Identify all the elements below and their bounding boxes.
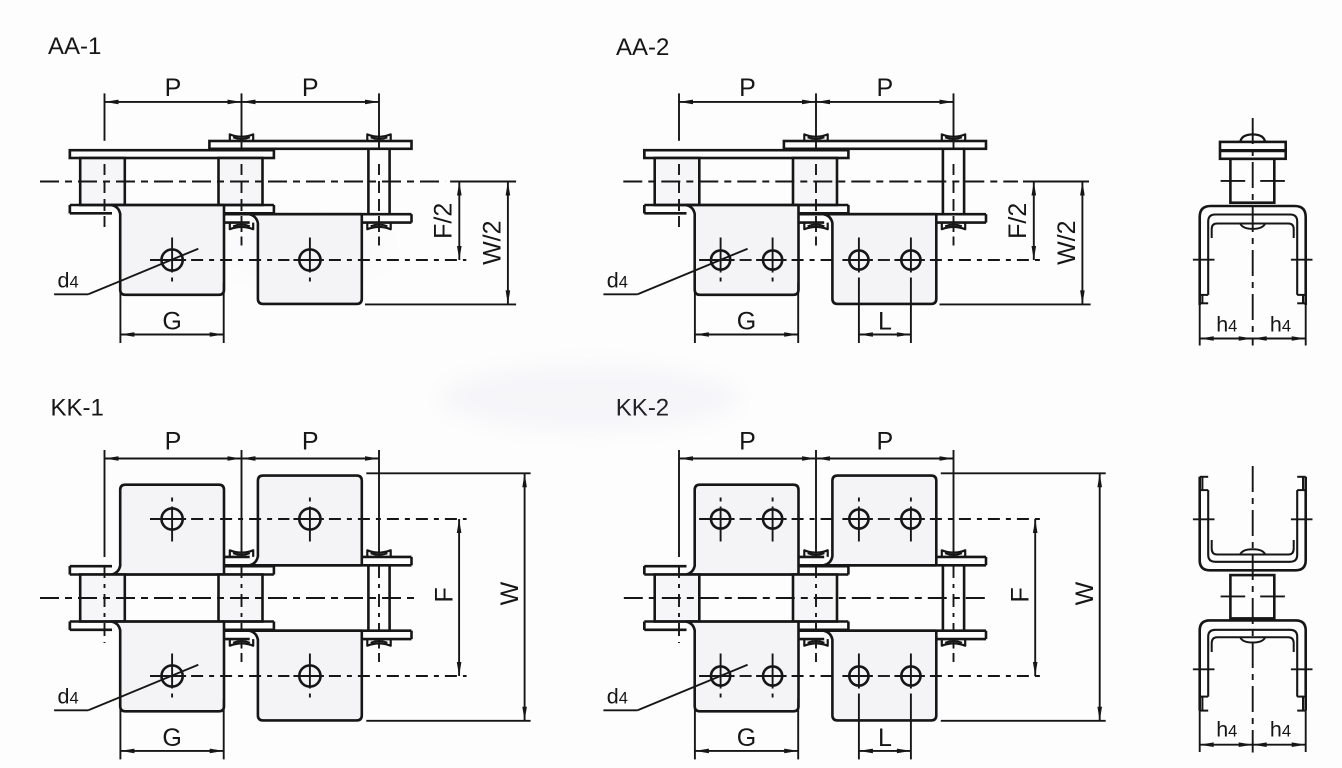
svg-text:G: G (737, 308, 756, 336)
KK-1 connecting pin (368, 565, 389, 630)
KK-1 cotter pin top 2 (230, 550, 253, 557)
svg-text:W/2: W/2 (1053, 220, 1081, 264)
KK h4 extension lines (1200, 711, 1306, 752)
AA-2 label G (737, 308, 756, 336)
AA-2 cotter pin top 3 (942, 134, 965, 141)
AA-1 link plate left ends (69, 150, 72, 213)
KK-2 attachment plate A1 (lower) (686, 622, 799, 712)
KK-1 roller link plate lower outer edge (70, 622, 274, 630)
KK-2 pin link plate lower inner edge (799, 629, 987, 632)
KK-2 pin extension lines (679, 450, 954, 662)
attachment section inner profile (1208, 215, 1297, 295)
AA-2 roller link plate upper (644, 150, 848, 158)
AA-1 attachment plate A2 (two-link, lower) (249, 214, 362, 304)
AA-2 dimension line G (695, 332, 798, 337)
KK-2 upper hole centerline (699, 518, 1041, 520)
KK-1 pin link plate upper outer edge (224, 557, 412, 565)
KK-2 W extension lines (941, 473, 1106, 721)
KK-1 label P left (165, 428, 182, 456)
AA-2 label d4 (607, 269, 628, 293)
AA-1 dimension line W/2 (506, 182, 511, 305)
KK-2 label P left (739, 428, 756, 456)
AA-1 pin extension lines (105, 93, 380, 245)
AA-1 attachment hole A2 (299, 238, 320, 282)
KK-2 attachment plate K2 (two-link, upper) (824, 476, 937, 566)
AA-1 roller link plate lower outer edge (70, 205, 274, 213)
attachment section outer profile (1200, 206, 1306, 305)
svg-text:P: P (165, 428, 182, 456)
svg-text:G: G (162, 308, 181, 336)
AA-2 attachment hole A1a (711, 238, 730, 282)
AA-1 label P left (165, 74, 182, 102)
AA-1 hole centerline (150, 259, 466, 261)
AA-2 dimension line F/2 (1032, 182, 1037, 261)
AA-1 label G (162, 308, 181, 336)
KK-1 pin link plate lower outer edge (224, 631, 412, 639)
AA-2 roller 1 (655, 158, 700, 205)
AA-1 roller link plate lower inner edge (70, 204, 274, 207)
KK-1 label P right (302, 428, 319, 456)
AA-2 pin link plate lower inner edge (799, 213, 987, 216)
KK-2 lower hole centerline (699, 675, 1041, 677)
AA-2 dimension line L (859, 332, 911, 337)
AA-1 dimension line F/2 (457, 182, 462, 261)
KK end view vertical centerline (1252, 466, 1254, 753)
end view cotter pin end (1237, 134, 1268, 142)
title AA-1 (48, 33, 101, 60)
KK-1 upper attachment hole K1 (162, 498, 183, 542)
attachment section second plate profile (1212, 224, 1294, 239)
svg-text:G: G (162, 724, 181, 752)
KK-1 cotter pin bottom 2 (230, 639, 253, 646)
KK-2 attachment plate K1 (upper) (686, 485, 799, 575)
KK-2 label d4 (607, 685, 628, 709)
KK-2 G extension lines (695, 699, 798, 759)
KK-1 dimension line P P (105, 456, 380, 461)
svg-text:F: F (1007, 587, 1035, 602)
svg-text:F/2: F/2 (1004, 203, 1032, 239)
KK-2 cotter pin bottom 2 (804, 639, 827, 646)
KK-2 cotter pin bottom 3 (942, 639, 965, 646)
KK-1 pin link plate lower inner edge (224, 629, 412, 632)
KK-2 dimension line L (859, 749, 911, 754)
KK-1 dimension line G (120, 749, 223, 754)
svg-text:W/2: W/2 (479, 220, 507, 264)
lower attachment section outer profile (1200, 620, 1306, 710)
KK-2 cotter pin top 3 (942, 550, 965, 557)
AA-2 label F/2 (1004, 203, 1032, 239)
KK-1 chain centerline (40, 597, 416, 599)
KK-1 label W (496, 581, 524, 605)
upper attachment leg caps (1200, 477, 1306, 490)
KK label h4 right (1270, 718, 1291, 742)
AA-2 connecting pin (943, 149, 964, 214)
AA-2 label P left (739, 74, 756, 102)
svg-text:P: P (876, 74, 893, 102)
KK-1 lower attachment hole A1 (162, 654, 183, 698)
AA-2 L extension lines (859, 281, 911, 343)
end view pin axis mark (1221, 180, 1285, 182)
svg-text:P: P (739, 74, 756, 102)
KK-1 G extension lines (120, 699, 223, 759)
KK-1 link plate left ends (69, 566, 72, 630)
AA-1 dimension line G (120, 332, 223, 337)
svg-text:h4: h4 (1216, 718, 1237, 742)
KK-1 label d4 (58, 685, 79, 709)
KK-1 dimension line W (522, 473, 527, 721)
KK-1 attachment plate A1 (lower) (112, 622, 225, 712)
AA-1 cotter pin bottom 2 (230, 223, 253, 230)
svg-text:L: L (878, 308, 892, 336)
KK-1 roller link plate lower inner edge (70, 620, 274, 623)
AA-2 hole centerline (699, 259, 1041, 261)
AA-1 chain centerline (40, 181, 516, 183)
KK-1 cotter pin bottom 3 (367, 639, 390, 646)
title AA-2 (616, 34, 669, 61)
svg-text:d4: d4 (607, 685, 628, 709)
svg-text:d4: d4 (58, 269, 79, 293)
KK-2 connecting pin (943, 565, 964, 630)
AA-1 cotter pin top 2 (230, 134, 253, 141)
KK-2 roller link plate upper inner edge (644, 573, 848, 576)
KK-2 upper attachment hole K1b (763, 498, 782, 542)
KK end view cotter pin lower end (1240, 637, 1265, 642)
svg-text:d4: d4 (58, 685, 79, 709)
AA-1 attachment hole A1 (162, 238, 183, 282)
AA-1 roller 1 (80, 158, 125, 205)
KK-2 roller 1 (655, 575, 700, 622)
end view cotter pin lower end (1240, 224, 1265, 229)
end view roller (1230, 159, 1274, 203)
KK-2 roller 2 (793, 575, 837, 622)
KK-1 cotter pin top 3 (367, 550, 390, 557)
KK-2 upper attachment hole K1a (711, 498, 730, 542)
KK-2 lower attachment hole A2b (901, 654, 920, 698)
AA-2 attachment plate A2 (two-link, lower) (824, 214, 937, 304)
svg-text:W: W (496, 581, 524, 605)
KK-2 dimension line P P (679, 456, 954, 461)
AA-1 leader line d4 (54, 249, 198, 295)
AA-2 roller link plate lower inner edge (644, 204, 848, 207)
AA-2 leader line d4 (603, 249, 747, 295)
AA-2 dimension line W/2 (1080, 182, 1085, 305)
svg-text:P: P (165, 74, 182, 102)
AA-1 label P right (302, 74, 319, 102)
KK-2 leader line d4 (603, 665, 747, 711)
svg-text:h4: h4 (1216, 313, 1237, 337)
KK-2 dimension line W (1097, 473, 1102, 721)
AA-2 label P right (876, 74, 893, 102)
KK-2 chain centerline (624, 597, 988, 599)
AA-2 label L (878, 308, 892, 336)
AA-2 roller 2 (793, 158, 837, 205)
KK-1 attachment plate K2 (two-link, upper) (249, 476, 362, 566)
svg-text:KK-2: KK-2 (616, 394, 669, 421)
KK-1 roller link plate upper inner edge (70, 573, 274, 576)
svg-text:L: L (878, 724, 892, 752)
svg-text:P: P (739, 428, 756, 456)
svg-text:G: G (737, 724, 756, 752)
svg-text:AA-2: AA-2 (616, 34, 669, 61)
AA-2 attachment hole A2b (901, 238, 920, 282)
end view pin link plates (1220, 142, 1286, 159)
KK-2 cotter pin top 2 (804, 550, 827, 557)
upper attachment leg section marks (1193, 518, 1313, 520)
AA-1 label F/2 (430, 203, 458, 239)
AA-2 label W/2 (1053, 220, 1081, 264)
dimension line h4 h4 (1200, 336, 1306, 341)
KK-2 roller link plate lower inner edge (644, 620, 848, 623)
KK end view roller (1230, 575, 1274, 618)
AA-2 dimension line P P (679, 100, 954, 105)
AA-2 chain centerline (623, 181, 1089, 183)
upper attachment section inner profile (1208, 490, 1297, 562)
svg-text:F/2: F/2 (430, 203, 458, 239)
AA-1 connecting pin (368, 149, 389, 214)
KK-2 label F (1007, 587, 1035, 602)
KK-1 pin link plate upper inner edge (224, 564, 412, 567)
AA-2 pin link plate lower outer edge (799, 214, 987, 222)
h4 extension lines (1200, 303, 1306, 345)
KK-1 attachment plate K1 (upper) (112, 485, 225, 575)
AA-2 cotter pin bottom 2 (804, 223, 827, 230)
KK-2 lower attachment hole A1b (763, 654, 782, 698)
KK-2 label W (1071, 581, 1099, 605)
KK-2 upper attachment hole K2b (901, 498, 920, 542)
AA-1 label W/2 (479, 220, 507, 264)
svg-text:KK-1: KK-1 (51, 394, 104, 421)
KK-2 attachment plate A2 (two-link, lower) (824, 631, 937, 721)
KK-1 pin extension lines (105, 450, 380, 662)
AA-1 W/2 extension line (365, 303, 516, 305)
attachment leg section marks (1193, 259, 1313, 261)
lower attachment section inner profile (1208, 630, 1297, 697)
AA-2 pin extension lines (679, 93, 954, 245)
KK-2 label G (737, 724, 756, 752)
KK-2 dimension line F (1033, 519, 1038, 676)
lower attachment leg section marks (1193, 668, 1313, 670)
AA-2 attachment hole A1b (763, 238, 782, 282)
AA-2 G extension lines (695, 283, 798, 343)
AA-1 pin link plate upper (209, 141, 411, 149)
KK dimension line h4 h4 (1200, 742, 1306, 747)
KK-2 label L (878, 724, 892, 752)
AA-1 pin link plate lower outer edge (224, 214, 412, 222)
svg-text:h4: h4 (1270, 313, 1291, 337)
KK-2 link plate left ends (643, 566, 646, 630)
AA-2 W/2 extension line (940, 303, 1091, 305)
KK-1 attachment plate A2 (two-link, lower) (249, 631, 362, 721)
svg-text:P: P (302, 428, 319, 456)
lower attachment leg feet (1200, 697, 1306, 711)
AA-2 cotter pin bottom 3 (942, 223, 965, 230)
end view vertical centerline (1252, 118, 1254, 346)
KK-1 lower attachment hole A2 (299, 654, 320, 698)
svg-text:P: P (876, 428, 893, 456)
KK-2 pin link plate upper inner edge (799, 564, 987, 567)
KK-1 upper hole centerline (150, 518, 467, 520)
KK-2 dimension line G (695, 749, 798, 754)
AA-1 dimension line P P (105, 100, 380, 105)
title KK-2 (616, 394, 669, 421)
KK-1 label F (431, 587, 459, 602)
AA-1 pin link plate lower inner edge (224, 213, 412, 216)
KK-2 roller link plate upper outer edge (644, 566, 848, 574)
AA-1 G extension lines (120, 283, 223, 343)
AA-2 link plate left ends (643, 150, 646, 213)
AA-1 cotter pin bottom 3 (367, 223, 390, 230)
AA-1 roller link plate upper (70, 150, 274, 158)
KK-2 upper attachment hole K2a (849, 498, 868, 542)
KK-2 lower attachment hole A2a (849, 654, 868, 698)
KK-2 roller link plate lower outer edge (644, 622, 848, 630)
KK-1 roller 2 (219, 575, 263, 622)
KK-1 dimension line F (457, 519, 462, 676)
KK-2 label P right (876, 428, 893, 456)
KK-2 L extension lines (859, 697, 911, 759)
KK-1 label G (162, 724, 181, 752)
upper attachment second plate profile (1212, 540, 1294, 555)
AA-2 roller link plate lower outer edge (644, 205, 848, 213)
svg-text:P: P (302, 74, 319, 102)
KK label h4 left (1216, 718, 1237, 742)
AA-2 cotter pin top 2 (804, 134, 827, 141)
AA-2 attachment hole A2a (849, 238, 868, 282)
label h4 left (1216, 313, 1237, 337)
KK-1 W extension lines (366, 473, 530, 721)
svg-text:d4: d4 (607, 269, 628, 293)
lower attachment second plate profile (1212, 637, 1294, 652)
AA-2 attachment plate A1 (lower) (686, 205, 799, 295)
AA-2 pin link plate upper (784, 141, 986, 149)
svg-text:W: W (1071, 581, 1099, 605)
label h4 right (1270, 313, 1291, 337)
title KK-1 (51, 394, 104, 421)
KK-2 pin link plate lower outer edge (799, 631, 987, 639)
KK-1 roller link plate upper outer edge (70, 566, 274, 574)
AA-1 cotter pin top 3 (367, 134, 390, 141)
KK-2 lower attachment hole A1a (711, 654, 730, 698)
KK-2 pin link plate upper outer edge (799, 557, 987, 565)
KK-1 lower hole centerline (150, 675, 467, 677)
KK end view cotter pin upper end (1240, 549, 1265, 554)
AA-1 roller 2 (219, 158, 263, 205)
KK-1 upper attachment hole K2 (299, 498, 320, 542)
attachment leg feet (1200, 295, 1306, 303)
svg-text:F: F (431, 587, 459, 602)
KK-1 leader line d4 (54, 665, 198, 711)
KK end view pin axis mark (1221, 595, 1285, 597)
svg-text:AA-1: AA-1 (48, 33, 101, 60)
svg-text:h4: h4 (1270, 718, 1291, 742)
AA-1 attachment plate A1 (lower) (112, 205, 225, 295)
KK-1 roller 1 (80, 575, 125, 622)
upper attachment section outer profile (1200, 477, 1306, 571)
AA-1 label d4 (58, 269, 79, 293)
